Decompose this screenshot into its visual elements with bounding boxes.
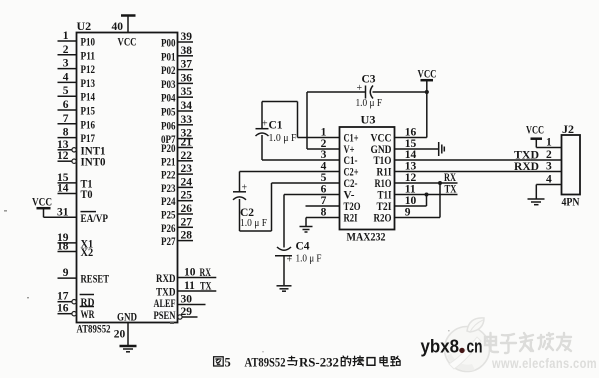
svg-text:40: 40 bbox=[112, 21, 124, 33]
svg-text:6: 6 bbox=[321, 184, 327, 196]
svg-text:P27: P27 bbox=[161, 234, 176, 248]
svg-text:P12: P12 bbox=[81, 62, 96, 76]
svg-text:1: 1 bbox=[63, 30, 69, 42]
svg-text:RXD: RXD bbox=[156, 271, 176, 285]
svg-text:RXD: RXD bbox=[514, 159, 539, 173]
svg-text:RESET: RESET bbox=[81, 272, 110, 286]
svg-text:10: 10 bbox=[405, 195, 417, 207]
svg-text:P25: P25 bbox=[161, 208, 176, 222]
svg-text:INT0: INT0 bbox=[81, 155, 106, 169]
svg-text:1.0 μ F: 1.0 μ F bbox=[356, 97, 383, 109]
svg-text:12: 12 bbox=[405, 172, 417, 184]
svg-text:9: 9 bbox=[405, 207, 411, 219]
svg-text:4: 4 bbox=[321, 161, 327, 173]
svg-text:P22: P22 bbox=[161, 168, 176, 182]
svg-text:6: 6 bbox=[63, 99, 69, 111]
svg-text:RX: RX bbox=[444, 172, 456, 184]
svg-text:cn: cn bbox=[467, 337, 483, 357]
svg-text:36: 36 bbox=[181, 72, 193, 84]
svg-text:U2: U2 bbox=[77, 19, 92, 33]
svg-text:P01: P01 bbox=[161, 49, 176, 63]
svg-text:P02: P02 bbox=[161, 63, 176, 77]
svg-text:+: + bbox=[242, 183, 248, 194]
svg-text:38: 38 bbox=[181, 45, 193, 57]
svg-text:P26: P26 bbox=[161, 221, 176, 235]
svg-text:MAX232: MAX232 bbox=[347, 230, 386, 244]
svg-text:35: 35 bbox=[181, 86, 193, 98]
svg-text:P21: P21 bbox=[161, 154, 176, 168]
svg-text:P13: P13 bbox=[81, 76, 96, 90]
svg-text:RX: RX bbox=[200, 265, 212, 279]
svg-text:25: 25 bbox=[181, 190, 193, 202]
svg-text:P14: P14 bbox=[81, 90, 96, 104]
svg-text:PSEN: PSEN bbox=[154, 308, 176, 322]
svg-text:18: 18 bbox=[57, 241, 69, 253]
svg-text:4: 4 bbox=[546, 174, 552, 186]
svg-text:8: 8 bbox=[321, 207, 327, 219]
svg-text:3: 3 bbox=[546, 161, 552, 173]
svg-text:24: 24 bbox=[181, 176, 193, 188]
svg-text:1: 1 bbox=[321, 127, 327, 139]
svg-text:EA/VP: EA/VP bbox=[81, 211, 109, 225]
svg-text:16: 16 bbox=[405, 127, 417, 139]
svg-text:7: 7 bbox=[321, 195, 327, 207]
svg-text:P11: P11 bbox=[81, 48, 96, 62]
svg-text:P10: P10 bbox=[81, 35, 96, 49]
svg-text:2: 2 bbox=[63, 44, 69, 56]
svg-text:26: 26 bbox=[181, 203, 193, 215]
svg-text:VCC: VCC bbox=[418, 67, 437, 81]
svg-text:ybx8: ybx8 bbox=[421, 337, 460, 357]
svg-text:8: 8 bbox=[63, 127, 69, 139]
svg-text:R2I: R2I bbox=[344, 211, 358, 225]
svg-text:9: 9 bbox=[63, 267, 69, 279]
svg-text:3: 3 bbox=[321, 149, 327, 161]
svg-text:14: 14 bbox=[57, 183, 69, 195]
svg-text:RS-232: RS-232 bbox=[299, 355, 339, 369]
svg-text:22: 22 bbox=[181, 150, 193, 162]
svg-text:34: 34 bbox=[181, 100, 193, 112]
svg-text:27: 27 bbox=[181, 216, 193, 228]
svg-text:20: 20 bbox=[114, 329, 126, 341]
svg-text:13: 13 bbox=[405, 161, 417, 173]
svg-text:GND: GND bbox=[117, 310, 137, 324]
svg-text:10: 10 bbox=[184, 267, 196, 279]
svg-text:P03: P03 bbox=[161, 77, 176, 91]
svg-text:TX: TX bbox=[200, 278, 212, 292]
svg-text:AT89S52: AT89S52 bbox=[245, 355, 286, 369]
svg-text:4PN: 4PN bbox=[562, 195, 580, 209]
svg-text:R2O: R2O bbox=[374, 211, 392, 225]
svg-text:P05: P05 bbox=[161, 105, 176, 119]
svg-text:29: 29 bbox=[181, 306, 193, 318]
svg-text:30: 30 bbox=[181, 294, 193, 306]
svg-text:4: 4 bbox=[63, 71, 69, 83]
svg-text:+: + bbox=[262, 119, 268, 130]
svg-text:TX: TX bbox=[445, 184, 458, 196]
svg-text:5: 5 bbox=[321, 172, 327, 184]
svg-text:U3: U3 bbox=[361, 113, 376, 127]
svg-text:5: 5 bbox=[63, 85, 69, 97]
svg-text:P24: P24 bbox=[161, 194, 176, 208]
svg-text:16: 16 bbox=[57, 303, 69, 315]
svg-text:21: 21 bbox=[181, 137, 193, 149]
svg-text:C1: C1 bbox=[269, 120, 283, 132]
svg-text:1.0 μ F: 1.0 μ F bbox=[240, 217, 267, 229]
svg-text:31: 31 bbox=[57, 206, 69, 218]
svg-text:VCC: VCC bbox=[526, 123, 544, 137]
svg-text:23: 23 bbox=[181, 163, 193, 175]
svg-text:14: 14 bbox=[405, 149, 417, 161]
svg-text:VCC: VCC bbox=[118, 35, 137, 49]
svg-text:T0: T0 bbox=[81, 187, 93, 201]
svg-text:2: 2 bbox=[546, 149, 552, 161]
svg-text:11: 11 bbox=[405, 184, 416, 196]
svg-text:P23: P23 bbox=[161, 181, 176, 195]
svg-text:C3: C3 bbox=[362, 74, 376, 86]
svg-text:5: 5 bbox=[225, 355, 231, 369]
svg-text:37: 37 bbox=[181, 59, 193, 71]
svg-text:33: 33 bbox=[181, 114, 193, 126]
svg-text:P06: P06 bbox=[161, 118, 176, 132]
svg-text:11: 11 bbox=[184, 280, 195, 292]
svg-text:P15: P15 bbox=[81, 104, 96, 118]
svg-text:P00: P00 bbox=[161, 36, 176, 50]
svg-text:www.elecfans.com: www.elecfans.com bbox=[491, 355, 597, 371]
svg-text:P04: P04 bbox=[161, 91, 176, 105]
svg-text:X2: X2 bbox=[81, 245, 94, 259]
svg-text:1.0 μ F: 1.0 μ F bbox=[269, 132, 297, 144]
svg-text:28: 28 bbox=[181, 230, 193, 242]
svg-text:1.0 μ F: 1.0 μ F bbox=[296, 253, 322, 265]
svg-text:J2: J2 bbox=[562, 122, 574, 136]
svg-text:13: 13 bbox=[57, 139, 69, 151]
svg-text:3: 3 bbox=[63, 58, 69, 70]
svg-text:WR: WR bbox=[81, 307, 95, 321]
svg-text:1: 1 bbox=[546, 137, 552, 149]
svg-text:12: 12 bbox=[57, 150, 69, 162]
svg-text:VCC: VCC bbox=[32, 195, 52, 209]
svg-text:C4: C4 bbox=[296, 241, 310, 253]
svg-text:AT89S52: AT89S52 bbox=[77, 322, 111, 336]
svg-text:+: + bbox=[287, 255, 293, 266]
svg-text:P20: P20 bbox=[161, 141, 176, 155]
svg-text:39: 39 bbox=[181, 31, 193, 43]
svg-text:7: 7 bbox=[63, 113, 69, 125]
svg-text:P16: P16 bbox=[81, 117, 96, 131]
svg-text:17: 17 bbox=[57, 291, 69, 303]
